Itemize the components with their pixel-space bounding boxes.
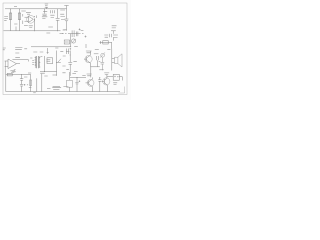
capacitor C2 plates xyxy=(56,18,60,20)
capacitor tick x16 xyxy=(15,27,17,31)
junction node L xyxy=(76,76,79,79)
op-amp input leads xyxy=(5,61,8,66)
label 22k xyxy=(21,10,26,12)
long wire y46.8 xyxy=(31,46,71,48)
transistor Q2 xyxy=(85,56,92,63)
transformer E label xyxy=(32,61,34,65)
plus C9 xyxy=(79,80,81,82)
junction node J xyxy=(89,65,92,68)
label top x28 xyxy=(28,72,31,74)
junction node C xyxy=(43,7,46,10)
Q4 leads xyxy=(106,74,109,91)
label 9 xyxy=(34,15,36,18)
label IN xyxy=(3,48,6,50)
label top small xyxy=(14,5,17,7)
junction node M xyxy=(98,76,101,79)
label cap right xyxy=(94,53,99,55)
label 9V top xyxy=(45,4,48,6)
wire y66.8 xyxy=(91,66,100,68)
label right of fig1 rail xyxy=(63,29,66,31)
label right cluster row2 xyxy=(105,36,118,38)
label mid cluster under xyxy=(81,30,84,32)
junction node G xyxy=(43,70,46,73)
op-amp IC1 xyxy=(28,16,33,22)
label under preset fig2 xyxy=(10,71,15,73)
label mid cluster left xyxy=(63,29,66,31)
wire vertical x44.6 xyxy=(44,56,46,72)
junction node D xyxy=(33,29,36,32)
border frame xyxy=(3,3,127,95)
Q2 collector lead xyxy=(89,51,91,55)
junction node A xyxy=(9,7,12,10)
label faint x52 xyxy=(53,74,57,76)
transistor TR1 outline xyxy=(27,15,35,23)
inner frame corner bottom-right xyxy=(119,87,125,94)
fig2 top arrow tick xyxy=(47,48,49,54)
supply column cap plates xyxy=(65,19,69,21)
left column wire xyxy=(4,61,6,75)
vertical x90.8 down xyxy=(90,67,92,78)
plus transformer xyxy=(40,55,42,57)
capacitor C3b bars xyxy=(76,32,78,37)
junction node I xyxy=(69,54,72,57)
label right row xyxy=(104,34,118,36)
label box small xyxy=(47,59,51,61)
capacitor C1 lead xyxy=(44,9,46,14)
transistor Q4 xyxy=(103,78,110,85)
top supply rail xyxy=(5,8,67,10)
transformer ticks xyxy=(35,58,41,68)
label stack left fig2 xyxy=(15,53,20,57)
supply terminal +9V xyxy=(45,7,48,9)
label stub xyxy=(95,48,99,50)
transistor tick xyxy=(57,59,61,63)
vertical left x5.8 xyxy=(5,75,7,92)
component box mid xyxy=(64,40,69,44)
resistor R1 xyxy=(9,13,11,20)
cap bars c8b xyxy=(20,85,23,87)
label faint x47 xyxy=(47,88,50,90)
caption Fig1 xyxy=(15,47,27,49)
label C1 value xyxy=(42,11,47,18)
transformer winding bumps xyxy=(35,57,40,68)
speaker leads xyxy=(112,59,115,63)
wire y77.4 xyxy=(70,76,86,78)
resistor R3 xyxy=(7,73,12,76)
label R3 xyxy=(12,71,16,73)
junction node B xyxy=(18,7,21,10)
op-amp input wires xyxy=(25,17,29,21)
label under C7 xyxy=(99,69,103,71)
capacitor ticks x22.8 xyxy=(22,14,24,24)
text squiggles xyxy=(3,4,119,93)
vertical x36.8 xyxy=(36,78,38,91)
labels right of x56 xyxy=(62,56,65,73)
vertical x41.8 xyxy=(41,74,43,92)
cap lead xyxy=(97,60,99,67)
mic arrow circle xyxy=(101,53,105,57)
wire vertical x70.7 xyxy=(70,34,72,47)
label mid xyxy=(24,24,28,26)
right cluster vertical to speaker xyxy=(111,42,113,48)
long vertical x56.6 xyxy=(56,51,58,76)
wire vertical x57.5 xyxy=(57,9,59,31)
op-amp output wire xyxy=(33,19,36,31)
op-amp output xyxy=(17,63,21,65)
wire y74.6 xyxy=(6,74,31,76)
bottom right cluster vertical x69.7 xyxy=(69,72,71,92)
trimmer arrow xyxy=(72,39,76,43)
right cluster wire y42.3 xyxy=(100,41,112,43)
label under box right xyxy=(113,83,117,85)
junction node E xyxy=(56,29,59,32)
labels near x70 xyxy=(66,51,78,71)
caption Fig2 second stroke xyxy=(53,85,60,87)
label x82 xyxy=(82,75,85,77)
plus top cap xyxy=(70,48,72,50)
wire to box xyxy=(107,76,113,78)
plus C7 xyxy=(99,61,101,63)
Q3 leads xyxy=(91,77,93,91)
resistor R4 xyxy=(30,80,32,86)
label 0V xyxy=(60,33,64,35)
label Q3 xyxy=(87,74,92,76)
capacitor C3 bars xyxy=(72,30,74,37)
box b1 xyxy=(67,80,73,87)
label plus mid xyxy=(79,28,81,30)
label below rail x33 xyxy=(33,92,36,94)
vertical x99.8 with cap xyxy=(98,77,101,91)
junction node H xyxy=(55,61,58,64)
capacitor right bars xyxy=(97,56,99,60)
label 1n xyxy=(14,23,17,25)
resistor R2 xyxy=(18,13,20,20)
label Q2 xyxy=(86,51,92,53)
pot leads xyxy=(14,69,16,71)
wire L right xyxy=(119,77,122,81)
supply column T-bar xyxy=(64,6,68,31)
box right inner xyxy=(114,76,118,77)
speaker feed vertical xyxy=(111,49,113,71)
ground rail fig1 xyxy=(4,30,61,32)
label box inner xyxy=(65,41,69,43)
labels verticals center xyxy=(40,73,48,76)
right cluster tick xyxy=(100,41,102,44)
plus mark x85 xyxy=(85,36,87,38)
wire y71.6 xyxy=(40,71,57,73)
label bottom x29 xyxy=(29,87,32,89)
transformer T1 windings xyxy=(36,56,38,68)
wire vertical x19.5 xyxy=(19,9,21,31)
vertical x30.6 xyxy=(30,75,32,92)
label above opamp xyxy=(26,13,31,15)
label mark x31 xyxy=(30,57,32,59)
capacitor C7 xyxy=(100,58,104,71)
label right of C2 row1 xyxy=(51,10,55,13)
label right cluster top xyxy=(112,26,117,28)
trimmer circle xyxy=(72,39,76,43)
feedback wire xyxy=(12,60,28,62)
labels caps bottom-left xyxy=(24,77,28,86)
label 0V under rail xyxy=(46,32,50,34)
label under trimmer xyxy=(74,46,78,48)
box with cap right xyxy=(113,74,119,80)
vertical x21.6 with electrolytics xyxy=(21,75,23,92)
fig2 top labels xyxy=(33,48,63,52)
capacitor C1 plates xyxy=(42,14,47,16)
op-amp U2 xyxy=(8,59,17,69)
input terminal dot xyxy=(34,16,35,17)
label dense row top extra xyxy=(50,15,65,19)
vertical x70.2 xyxy=(69,51,71,76)
label right of C2 row2 xyxy=(60,10,65,17)
label box BC xyxy=(47,58,53,64)
stub tick x86 xyxy=(85,44,87,48)
Q2 emitter lead xyxy=(90,63,92,67)
junction node F xyxy=(69,45,72,48)
junction node K xyxy=(20,73,23,76)
label x72 top xyxy=(72,72,76,74)
transistor Q3 xyxy=(87,80,94,87)
label block left xyxy=(4,17,8,21)
fig2 cap bars top xyxy=(67,49,69,55)
label caption extra xyxy=(53,89,59,91)
loudspeaker LS1 xyxy=(115,57,118,63)
right cluster cap bars xyxy=(110,34,112,38)
caption Fig2 xyxy=(52,87,68,88)
wire vertical x10.5 xyxy=(10,9,12,31)
capacitor C6 plates xyxy=(68,62,72,64)
right cluster resistor box xyxy=(103,41,108,44)
mid cluster wire y33.6 xyxy=(68,33,84,35)
label Q4 xyxy=(104,73,109,75)
label near speaker top xyxy=(107,49,110,51)
rail dashes xyxy=(62,32,67,34)
label under opamp fig1 xyxy=(29,26,33,28)
bottom ground rail xyxy=(6,91,120,93)
capacitor C9 xyxy=(75,77,78,91)
label above rail x48 xyxy=(48,26,53,28)
cap bars c8a xyxy=(20,79,23,81)
right cluster T-bar xyxy=(111,31,116,41)
